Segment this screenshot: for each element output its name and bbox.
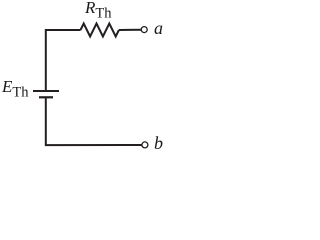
battery E1 short plate (-) xyxy=(39,96,53,98)
label a xyxy=(154,18,163,39)
wire top horizontal + left vertical (corner at top-left) xyxy=(46,30,81,91)
label b xyxy=(154,133,163,154)
terminal a (open circle) xyxy=(141,27,147,33)
label R_Th xyxy=(85,0,112,22)
wire left vertical (battery to bottom corner) + bottom horizontal to terminal b xyxy=(46,97,142,145)
resistor R1 (R_Th zigzag) xyxy=(81,24,119,37)
wire top horizontal (resistor to terminal a) xyxy=(119,29,141,31)
battery E1 long plate (+) xyxy=(33,90,59,92)
terminal b (open circle) xyxy=(142,142,148,148)
label E_Th xyxy=(2,77,29,102)
